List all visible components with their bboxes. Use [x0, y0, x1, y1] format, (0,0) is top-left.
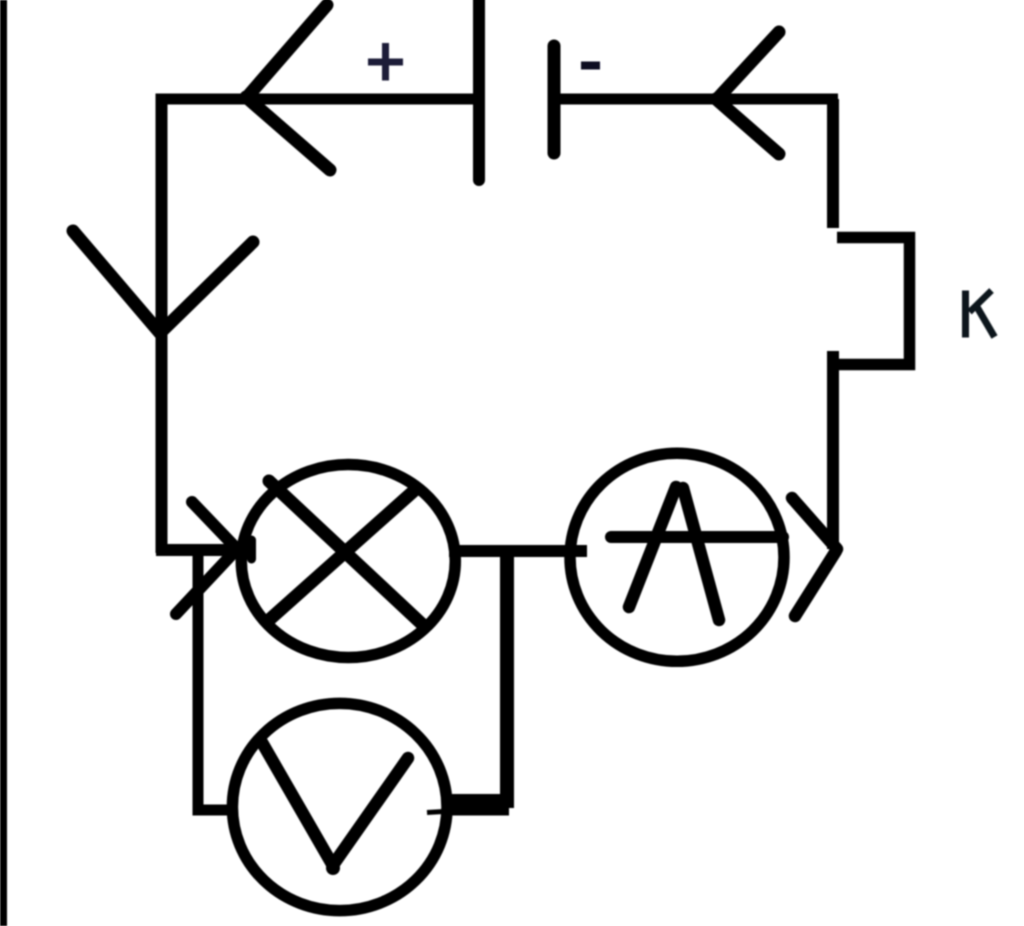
- lamp L1 (circle): [241, 465, 455, 658]
- wire voltmeter right horizontal: [450, 805, 509, 816]
- switch K body: [837, 238, 910, 365]
- voltmeter V vertex dot: [326, 861, 340, 875]
- wire right vertical lower: [827, 351, 839, 549]
- branch wire: voltmeter right up to lamp-ammeter wire: [452, 552, 507, 801]
- ammeter crossbar: [611, 531, 783, 543]
- wire right vertical upper: [827, 99, 839, 228]
- ammeter letter A right leg: [683, 488, 719, 620]
- current arrow A5 (left wire, pointing down): [73, 231, 253, 333]
- ammeter letter A left leg: [629, 487, 676, 607]
- wire top-left horizontal: [158, 94, 480, 105]
- lamp L1 cross stroke 2: [269, 489, 416, 620]
- label -: [581, 62, 600, 70]
- left page border line: [0, 0, 7, 926]
- voltmeter letter V left stroke: [260, 739, 332, 864]
- ammeter U1 (circle): [570, 453, 784, 661]
- current arrow A1 (top wire, pointing left): [246, 5, 330, 170]
- label +: [368, 43, 403, 81]
- voltmeter V1 (circle): [232, 703, 447, 910]
- current arrow A4 (at ammeter right, pointing down-right): [792, 498, 837, 616]
- terminal tick at lamp left: [247, 540, 256, 559]
- current arrow A2 (top right wire, pointing left): [716, 32, 779, 154]
- battery negative plate (short): [548, 46, 561, 153]
- wire lamp to ammeter: [449, 545, 587, 557]
- wire top-right horizontal: [553, 94, 838, 105]
- battery positive plate (long): [473, 0, 485, 180]
- current arrow A3 (bottom wire, pointing right): [176, 502, 237, 614]
- lamp L1 cross stroke 1: [269, 481, 424, 626]
- wire bottom-left horizontal: [156, 544, 256, 556]
- wire left vertical: [156, 94, 168, 554]
- voltmeter letter V right stroke: [333, 758, 408, 865]
- terminal tick at voltmeter right: [427, 811, 452, 813]
- branch wire: down-left from lamp junction to voltmeter: [198, 553, 236, 810]
- label K: [966, 291, 995, 338]
